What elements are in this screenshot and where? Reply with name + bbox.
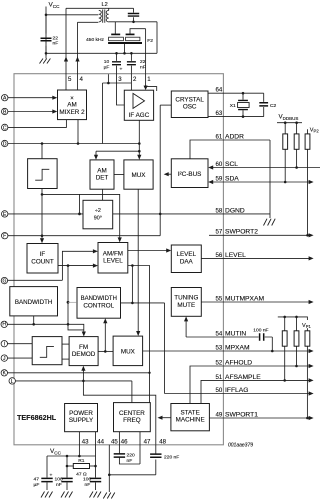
wire terminal J into FM limiter <box>8 357 33 359</box>
svg-text:220 nF: 220 nF <box>164 454 179 460</box>
svg-text:VP2: VP2 <box>310 127 320 133</box>
terminal B <box>1 108 7 114</box>
block POWER SUPPLY <box>65 404 98 432</box>
node cap to filter line <box>132 21 135 24</box>
svg-text:IF AGC: IF AGC <box>129 112 150 119</box>
wire pin 64 to crystal circuit <box>208 92 263 94</box>
wire secondary bottom to filter row y=21.8 <box>109 21 157 23</box>
ground below 100nF-1 <box>61 492 73 498</box>
capacitor 22 nF (Vcc decoupling) <box>41 38 52 41</box>
block CRYSTAL OSC <box>171 91 208 118</box>
svg-text:SUPPLY: SUPPLY <box>69 417 94 424</box>
svg-text:×: × <box>70 96 74 102</box>
arrow from STATE MACHINE pointing left <box>158 416 163 420</box>
block divide-by-2 90deg <box>83 200 113 229</box>
wire pin1 node stub right and down <box>146 87 157 91</box>
node resistor/SWPORT1 <box>306 417 309 420</box>
pin 64 <box>216 87 223 94</box>
node limiter output / E-feed line <box>41 193 44 196</box>
pin 56 LEVEL <box>216 252 314 261</box>
arrow into FM DEMOD top <box>82 332 86 337</box>
svg-text:+: + <box>50 474 53 479</box>
wire terminal E to divider <box>8 213 83 215</box>
svg-text:MUTIN: MUTIN <box>225 330 246 337</box>
node IF AGC output joins <box>138 142 141 145</box>
wire terminal A to AM MIXER 2 <box>8 97 56 99</box>
arrow into AM MIXER 2 (A) <box>52 96 57 100</box>
svg-text:DAA: DAA <box>180 258 194 265</box>
svg-text:BANDWIDTH: BANDWIDTH <box>15 299 52 306</box>
wire pin48 cap to ground net <box>109 474 156 476</box>
node MUTIN/MPXAM <box>271 350 274 353</box>
wire BW CTRL output down to IFFLAG <box>164 303 166 394</box>
wire IFFLAG to pin 50 <box>165 393 310 395</box>
pin 59 SDA <box>216 175 314 184</box>
svg-text:C: C <box>3 125 7 131</box>
capacitor 100 nF (1) <box>66 456 68 490</box>
svg-text:45: 45 <box>111 438 118 445</box>
svg-text:D: D <box>3 141 7 147</box>
wire pin 63 to crystal circuit <box>208 116 263 118</box>
block MUX (audio) <box>113 336 143 366</box>
pin 52 AFHOLD <box>216 359 314 368</box>
svg-text:450 kHz: 450 kHz <box>86 37 104 43</box>
svg-text:VDDBUS: VDDBUS <box>279 114 299 121</box>
wire terminal I into FM limiter <box>8 343 33 345</box>
svg-text:R1: R1 <box>78 458 85 464</box>
arrow into AM/FM LEVEL top <box>118 237 122 242</box>
svg-text:LEVEL: LEVEL <box>225 252 246 259</box>
node FM DEMOD output / bandwidth feedback <box>104 350 107 353</box>
node on BW CTRL output <box>131 302 134 305</box>
terminal G <box>1 277 7 283</box>
svg-text:TUNING: TUNING <box>174 295 198 302</box>
arrow into AM DET top <box>94 155 98 160</box>
wire Vddbus rail <box>277 122 302 124</box>
node K / center-freq feed <box>148 372 150 374</box>
Vp1 label <box>302 320 314 328</box>
terminal J <box>1 355 7 361</box>
svg-text:nF: nF <box>53 41 59 47</box>
node L / FM DEMOD feed <box>82 380 85 383</box>
terminal D <box>1 140 7 146</box>
capacitor 22 nF (pin 2) <box>130 53 132 73</box>
pin 53 MPXAM <box>216 344 314 353</box>
svg-text:CRYSTAL: CRYSTAL <box>175 96 204 103</box>
wire MUTIN cap to MPXAM <box>271 337 273 351</box>
svg-text:IF: IF <box>40 251 46 258</box>
wire feed to AM DET <box>96 151 139 156</box>
svg-text:100: 100 <box>83 477 91 483</box>
svg-text:59: 59 <box>216 175 223 182</box>
node Vp1 rail r1 <box>283 316 286 319</box>
wire Vcc rail (bottom) <box>47 455 96 457</box>
node rail/100nF-1 <box>66 455 69 458</box>
crystal X1 <box>242 93 244 116</box>
wire terminal D (IF input node) <box>8 143 103 145</box>
wire terminal L right <box>15 380 131 382</box>
wire MUTIN internal segment <box>186 336 223 338</box>
svg-text:SDA: SDA <box>225 175 239 182</box>
block MUX (IF path) <box>124 160 153 189</box>
arrow into LEVEL DAA <box>166 248 171 252</box>
node internal bus on DGND line <box>159 213 162 216</box>
terminal I <box>1 341 7 347</box>
node R1 left / 100nF-1 <box>66 465 69 468</box>
wire limiter 1 output down <box>41 189 43 237</box>
svg-text:57: 57 <box>216 229 223 236</box>
block AM DET <box>90 160 114 189</box>
terminal A <box>1 95 7 101</box>
svg-text:51: 51 <box>216 374 223 381</box>
svg-text:nF: nF <box>56 482 62 488</box>
wire pin 4 to transformer primary bottom <box>78 21 99 23</box>
wire pin 2 node across top of IF AGC (y=83) <box>103 82 132 84</box>
wire IF COUNT output to AM/FM LEVEL <box>58 265 96 267</box>
wire terminal K right <box>8 372 150 374</box>
block limiter 2 (FM) <box>32 337 62 365</box>
wire feedback up to BANDWIDTH CONTROL bottom <box>104 322 106 351</box>
node filter bottom lead <box>123 52 126 55</box>
arrow into IF COUNT top <box>40 238 44 243</box>
wire LEVEL DAA output to pin 56 <box>201 257 309 259</box>
wire filter bottom electrode to ground line <box>124 44 126 53</box>
svg-text:MUTMPXAM: MUTMPXAM <box>225 295 264 302</box>
resistor pull-up SCL <box>294 134 299 149</box>
node resistor/AFHOLD <box>295 365 298 368</box>
svg-text:61: 61 <box>216 133 223 140</box>
svg-text:55: 55 <box>216 295 223 302</box>
arrow from I2C-BUS to bus (left) <box>164 172 169 176</box>
terminal L <box>9 378 15 384</box>
svg-text:MIXER 2: MIXER 2 <box>59 109 85 116</box>
wire pin 44 from POWER SUPPLY <box>95 432 97 466</box>
wire MUTIN up into TUNING MUTE bottom <box>185 321 187 337</box>
node Vp1 rail r2 <box>295 316 298 319</box>
wire I2C-BUS output to bus <box>168 173 172 175</box>
svg-text:43: 43 <box>82 438 89 445</box>
wire SCL to I2C-BUS <box>212 167 320 169</box>
svg-text:90°: 90° <box>94 215 102 221</box>
wire pin 5 vertical <box>65 8 67 90</box>
node ground net / pin 45 <box>108 474 111 477</box>
wire L branch up into FM DEMOD bottom <box>82 370 84 381</box>
wire pin 47 from CENTER FREQ <box>139 432 141 464</box>
svg-text:IFFLAG: IFFLAG <box>225 387 248 394</box>
ground below pin 45 net <box>103 493 115 499</box>
block BANDWIDTH CONTROL <box>77 288 121 319</box>
node Vcc/top rail junction <box>45 14 48 17</box>
arrow up on pin 4 wire <box>75 57 79 62</box>
svg-text:C2: C2 <box>270 103 277 109</box>
svg-text:47 Ω: 47 Ω <box>76 471 87 477</box>
resistor pull-up AFSAMPLE <box>282 331 287 346</box>
node crystal top <box>242 92 245 95</box>
svg-text:LEVEL: LEVEL <box>176 251 196 258</box>
wire pin 46 from CENTER FREQ <box>118 432 120 454</box>
wire ADDR from I2C-BUS top <box>190 140 270 159</box>
arrow up on pin 5 wire <box>64 57 68 62</box>
wire AM/FM output branch down to BW CTRL output <box>131 266 133 303</box>
wire ground line y=53.3 from Vcc cap to filter box right leg <box>46 52 157 54</box>
svg-text:LEVEL: LEVEL <box>103 258 123 265</box>
ceramic filter element 2 <box>130 29 146 34</box>
wire AM DET to MUX link <box>114 174 124 176</box>
terminal H <box>1 321 7 327</box>
ceramic filter element 1 <box>114 22 116 34</box>
block CENTER FREQ <box>114 403 151 432</box>
capacitor 100 nF (MUTIN) <box>223 336 272 338</box>
arrow into I2C-BUS (SDA) <box>208 180 213 184</box>
svg-text:AM: AM <box>67 102 76 109</box>
node crystal bottom <box>242 115 245 118</box>
svg-text:47: 47 <box>144 438 151 445</box>
wire STATE MACHINE output left arrow <box>162 417 171 419</box>
transformer L2 primary winding <box>99 10 102 22</box>
wire SDA to I2C-BUS <box>212 181 310 183</box>
node D/mixer output <box>77 142 80 145</box>
block LEVEL DAA <box>171 245 201 273</box>
ground below 100nF-2 <box>90 492 102 498</box>
svg-text:100 nF: 100 nF <box>253 328 268 334</box>
block TUNING MUTE <box>171 288 201 317</box>
svg-text:DGND: DGND <box>225 207 245 214</box>
svg-text:CONTROL: CONTROL <box>83 302 114 309</box>
arrow into MUX2 top <box>136 331 140 336</box>
svg-text:SCL: SCL <box>225 161 238 168</box>
wire FM DEMOD to MUX2 <box>98 350 113 352</box>
node resistor/SWPORT2 <box>306 234 309 237</box>
svg-text:220: 220 <box>127 453 135 459</box>
wire terminal C to AM MIXER 2 bottom <box>8 120 67 128</box>
arrow into MUX top <box>137 155 141 160</box>
limiter 2 step symbol <box>40 346 54 357</box>
wire D branch down into limiter 1 <box>41 144 43 159</box>
block AM MIXER 2 (U-internal) <box>58 90 87 120</box>
capacitor 220 nF (pin 48) <box>155 445 157 475</box>
limiter 1 step symbol <box>35 169 49 180</box>
wire SWPORT2 segment to pin 57 <box>209 234 310 236</box>
wire divider output / DGND line (y=213.9) <box>113 213 270 215</box>
arrow into AM/FM LEVEL left (G) <box>93 249 98 253</box>
arrow into AM MIXER 2 (B) <box>52 109 57 113</box>
capacitor 10 uF (pin 3) <box>116 53 118 73</box>
svg-text:2: 2 <box>133 76 137 83</box>
capacitor C2 <box>263 93 265 116</box>
ground below 47uF <box>41 492 53 498</box>
wire pin 2 into IF AGC top <box>130 74 132 90</box>
wire H branch up into BANDWIDTH <box>33 316 35 324</box>
resistor pull-up SDA <box>283 134 288 149</box>
svg-text:nF: nF <box>85 482 91 488</box>
transformer L2 core <box>103 10 105 23</box>
svg-text:10: 10 <box>104 59 110 65</box>
svg-text:nF: nF <box>140 64 146 70</box>
node R1 right / pin 44 <box>94 465 97 468</box>
svg-text:DEMOD: DEMOD <box>72 351 96 358</box>
wire terminal F to internal bus <box>8 235 160 237</box>
pin 61 ADDR <box>216 133 245 140</box>
arrow into IF AGC top (pin 1) <box>144 86 148 91</box>
svg-text:60: 60 <box>216 161 223 168</box>
svg-text:L: L <box>11 379 14 385</box>
pin 58 DGND <box>216 207 245 214</box>
svg-text:AFHOLD: AFHOLD <box>225 359 252 366</box>
wire bus top into CRYSTAL OSC <box>160 104 171 106</box>
svg-text:AM: AM <box>97 167 106 174</box>
resistor pull-up SWPORT2 (Vp2) <box>305 134 310 149</box>
svg-text:DET: DET <box>96 175 109 182</box>
wire limiter2 to FM DEMOD lower <box>62 358 69 360</box>
wire Vcc vertical <box>45 7 47 57</box>
node on y=83 line <box>107 82 110 85</box>
terminal F <box>1 233 7 239</box>
svg-text:VP1: VP1 <box>302 323 312 329</box>
svg-text:44: 44 <box>97 438 104 445</box>
block STATE MACHINE <box>171 404 210 431</box>
resistor pull-up SWPORT1 (Vp1) <box>305 331 310 346</box>
node H / cascade vertical <box>67 323 70 326</box>
wire terminal H right, down into FM DEMOD <box>7 324 83 332</box>
svg-text:I²C-BUS: I²C-BUS <box>178 171 201 178</box>
wire feed down to MUX <box>138 151 140 156</box>
block IF AGC <box>124 90 153 120</box>
wire TUNING MUTE output to pin 55 <box>201 301 309 303</box>
block I2C-BUS <box>171 159 208 188</box>
arrow into AM/FM LEVEL (IF COUNT) <box>93 264 98 268</box>
node rail/pin43 <box>78 455 81 458</box>
svg-text:VCC: VCC <box>49 2 61 9</box>
wire AM DET output down to divider <box>102 189 104 200</box>
capacitor 220 nF (pin 46) <box>114 454 125 457</box>
IC package outline TEF6862HL <box>14 74 223 445</box>
node H / bandwidth branch <box>32 323 35 326</box>
svg-text:5: 5 <box>68 76 72 83</box>
svg-text:µF: µF <box>104 64 110 70</box>
block IF COUNT <box>27 244 58 274</box>
wire pin 3 into IF AGC left <box>117 74 125 105</box>
wire pin 43 from POWER SUPPLY <box>78 432 80 456</box>
Vp1 rail <box>278 317 308 331</box>
wire AFSAMPLE from STATE MACHINE top <box>201 380 310 403</box>
wire pin 4 vertical <box>77 22 79 90</box>
pin 55 MUTMPXAM <box>216 295 314 304</box>
svg-text:MPXAM: MPXAM <box>225 344 250 351</box>
wire junction to BANDWIDTH CONTROL (faint) <box>68 301 77 303</box>
svg-text:SWPORT2: SWPORT2 <box>225 229 258 236</box>
node resistor/AFSAMPLE <box>283 379 286 382</box>
wire pin 5 top horizontal to C and secondary top <box>66 7 134 9</box>
svg-text:50: 50 <box>216 387 223 394</box>
svg-text:G: G <box>2 279 6 285</box>
wire AM/FM LEVEL right output down to CENTER FREQ <box>128 266 150 403</box>
wire Vcc to transformer primary top (y=14.8) <box>46 14 98 16</box>
wire ADDR/DGND vertical to ground <box>269 140 271 218</box>
wire pin46 cap to pin 47 <box>119 458 140 465</box>
stub from node to IC edge <box>107 74 109 83</box>
wire BANDWIDTH CONTROL output <box>121 302 165 304</box>
pin 54 MUTIN <box>216 330 247 337</box>
node pin 1 branch <box>144 85 147 88</box>
svg-text:STATE: STATE <box>180 410 199 417</box>
ground (DGND) <box>264 219 276 226</box>
pin 50 IFFLAG <box>216 387 314 396</box>
terminal K <box>1 370 7 376</box>
wire branch down to E line <box>79 194 81 214</box>
wire AM MIXER 2 output down to D line <box>77 120 79 144</box>
arrow into TUNING MUTE bottom (MUTIN) <box>184 316 188 321</box>
svg-text:47: 47 <box>34 477 40 483</box>
svg-text:SWPORT1: SWPORT1 <box>225 411 258 418</box>
block limiter 1 <box>28 159 57 189</box>
svg-text:I: I <box>4 342 5 348</box>
svg-text:+: + <box>120 67 123 72</box>
svg-text:X1: X1 <box>230 103 236 109</box>
svg-text:OSC: OSC <box>183 104 197 111</box>
svg-text:64: 64 <box>216 87 223 94</box>
svg-text:001aae379: 001aae379 <box>228 443 253 449</box>
pin 51 AFSAMPLE <box>216 374 314 383</box>
wire MUX1 bottom to MUX2 top <box>137 189 139 332</box>
wire F2 right leg down to ground line <box>156 22 158 54</box>
wire pin 1 into IF AGC top <box>145 74 147 86</box>
node cascade/bandwidth-control junction <box>67 301 70 304</box>
wire cascade vertical x=68 <box>68 266 84 330</box>
node AM/FM output branch <box>131 264 134 267</box>
pin 63 <box>216 110 223 117</box>
node rail/resistor 2 <box>295 121 298 124</box>
amplifier triangle in IF AGC <box>133 93 145 108</box>
svg-text:VCC: VCC <box>50 448 62 455</box>
capacitor (transformer top, unlabelled) <box>133 8 135 21</box>
svg-text:58: 58 <box>216 207 223 214</box>
svg-text:MUTE: MUTE <box>177 302 195 309</box>
svg-text:100: 100 <box>55 477 63 483</box>
svg-text:52: 52 <box>216 359 223 366</box>
svg-text:53: 53 <box>216 344 223 351</box>
wire pin 45 vertical <box>108 445 110 490</box>
wire internal bus vertical <box>159 105 161 236</box>
wire terminal B to AM MIXER 2 <box>8 111 56 113</box>
svg-text:48: 48 <box>159 438 166 445</box>
node D/limiter branch <box>41 142 44 145</box>
filter common bottom electrode <box>108 42 142 44</box>
node IF COUNT output branch <box>67 264 70 267</box>
svg-text:CENTER: CENTER <box>119 410 145 417</box>
wire IF AGC bottom output <box>138 120 140 151</box>
wire limiter2 to FM DEMOD upper <box>62 343 69 345</box>
svg-text:MACHINE: MACHINE <box>176 417 205 424</box>
block AM/FM LEVEL <box>98 243 128 274</box>
svg-text:L2: L2 <box>102 2 108 8</box>
wire L end down into CENTER FREQ <box>131 381 133 404</box>
pin 57 SWPORT2 <box>216 229 314 238</box>
svg-text:AM/FM: AM/FM <box>103 250 123 257</box>
wire D line to IF AGC/MUX feed node <box>103 143 140 145</box>
wire y=194.4 across to AM/FM level feed <box>42 194 120 238</box>
wire AFHOLD from STATE MACHINE top <box>190 366 310 403</box>
svg-text:COUNT: COUNT <box>31 258 54 265</box>
svg-text:54: 54 <box>216 330 223 337</box>
svg-text:MUX: MUX <box>132 172 147 179</box>
node rail/resistor 1 <box>284 121 287 124</box>
svg-text:AFSAMPLE: AFSAMPLE <box>225 374 261 381</box>
node resistor/SDA <box>284 181 287 184</box>
wire R1 left lead <box>67 465 73 467</box>
svg-text:H: H <box>2 321 6 327</box>
svg-text:µF: µF <box>34 482 40 488</box>
wire MUX2 output to pin 53 MPXAM <box>143 350 310 352</box>
